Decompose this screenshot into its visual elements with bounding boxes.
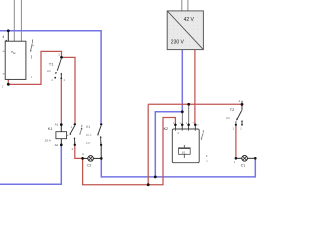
svg-text:1: 1 (2, 85, 4, 89)
svg-text:1: 1 (240, 126, 242, 130)
svg-text:A1: A1 (55, 122, 59, 126)
svg-text:K1: K1 (48, 127, 53, 131)
svg-text:1: 1 (206, 159, 208, 163)
svg-text:1: 1 (58, 53, 60, 57)
svg-text:T1: T1 (49, 61, 54, 66)
svg-text:K1: K1 (86, 125, 90, 129)
svg-text:1/1: 1/1 (182, 151, 186, 155)
svg-text:1: 1 (232, 126, 234, 130)
svg-text:20 A: 20 A (45, 138, 52, 142)
svg-text:C1: C1 (241, 164, 245, 168)
svg-text:1: 1 (51, 78, 53, 82)
svg-text:4: 4 (2, 35, 4, 39)
svg-text:1: 1 (234, 160, 236, 164)
svg-text:4: 4 (72, 147, 74, 151)
svg-text:HU: HU (47, 69, 51, 73)
svg-text:147: 147 (86, 141, 91, 145)
svg-text:7: 7 (197, 124, 199, 127)
svg-text:1: 1 (31, 75, 33, 79)
svg-text:230 V: 230 V (171, 39, 185, 45)
svg-text:1: 1 (239, 99, 241, 103)
svg-text:C2: C2 (87, 164, 91, 168)
svg-text:HU: HU (226, 116, 230, 120)
svg-text:42 V: 42 V (184, 17, 195, 23)
svg-text:1: 1 (71, 125, 73, 129)
svg-text:T2: T2 (230, 108, 234, 112)
svg-text:A2: A2 (55, 143, 59, 147)
svg-text:20 A: 20 A (86, 133, 92, 137)
svg-text:1: 1 (63, 78, 65, 82)
svg-text:K2: K2 (164, 127, 168, 131)
